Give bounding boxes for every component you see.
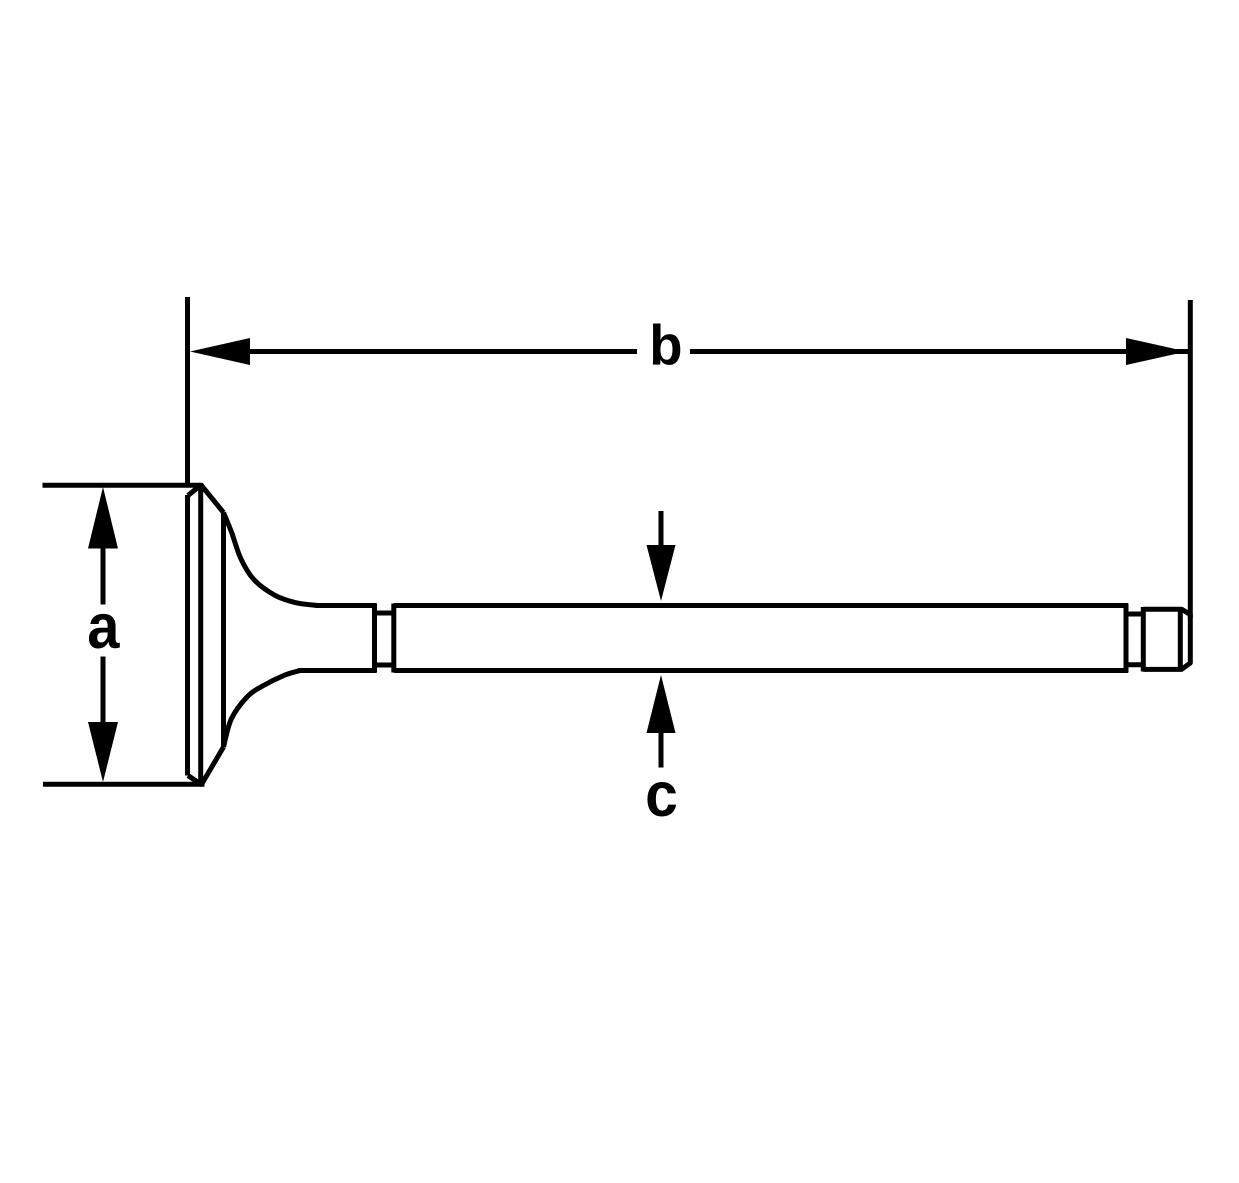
- extension line bottom (dimension a, head bottom plane): [43, 782, 205, 787]
- arrowhead c bottom: [647, 675, 676, 733]
- extension line right (dimension b, valve tip plane): [1188, 300, 1193, 618]
- valve neck end edge: [372, 604, 377, 673]
- valve neck top line: [315, 603, 377, 608]
- svg-text:a: a: [87, 592, 120, 662]
- valve neck bottom fillet curve: [224, 671, 301, 748]
- keeper groove top line: [1126, 612, 1143, 617]
- valve tip outline with chamfered end: [1143, 609, 1190, 669]
- arrowhead c top: [647, 545, 676, 601]
- valve seat face outer edge: [221, 513, 226, 748]
- extension line left (dimension b, valve head back face plane): [185, 297, 190, 487]
- svg-text:c: c: [645, 760, 678, 830]
- keeper groove bottom line: [1126, 662, 1143, 667]
- stem top line: [394, 603, 1128, 608]
- valve head bottom corner chamfer: [188, 776, 202, 786]
- valve seat face bottom chamfer: [202, 747, 224, 785]
- stem groove bottom line: [375, 663, 394, 668]
- arrowhead b right: [1126, 338, 1187, 365]
- valve neck top fillet curve: [224, 513, 318, 606]
- dimension line a lower shaft: [101, 657, 106, 771]
- arrowhead a top: [88, 487, 118, 549]
- dimension line b right segment: [690, 349, 1189, 354]
- svg-text:b: b: [649, 314, 682, 378]
- stem groove top line: [375, 611, 394, 616]
- valve neck bottom line: [298, 668, 377, 673]
- arrowhead a bottom: [88, 722, 118, 782]
- arrowhead b left: [190, 338, 250, 365]
- valve head top corner chamfer: [188, 485, 202, 496]
- valve seat face top chamfer: [201, 485, 224, 513]
- dimension line a upper shaft: [101, 500, 106, 605]
- extension line top (dimension a, head top plane): [43, 483, 203, 488]
- stem bottom line: [394, 668, 1128, 673]
- stem left end edge: [391, 604, 396, 673]
- valve tip left edge: [1141, 607, 1146, 672]
- leader line c bottom shaft: [659, 728, 664, 768]
- valve head back face right edge: [198, 485, 203, 785]
- leader line c top shaft: [659, 511, 664, 550]
- valve tip end face edge: [1178, 611, 1183, 668]
- valve head back face left edge: [185, 495, 190, 776]
- dimension line b left segment: [248, 349, 637, 354]
- stem right end edge: [1124, 604, 1129, 673]
